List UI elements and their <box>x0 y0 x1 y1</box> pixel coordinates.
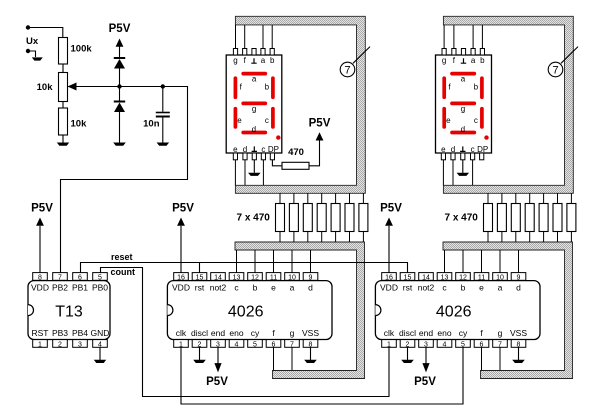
wire: carry U3 cy to U2 clk <box>181 347 463 404</box>
wire: wiper node to T13 PB2 <box>61 87 188 273</box>
wire: reset net T13 PB1 to U2/U3 rst <box>81 263 408 273</box>
svg-text:10n: 10n <box>143 118 160 129</box>
wires: display DIS2 pins e d c to bus <box>443 160 472 186</box>
svg-text:PB0: PB0 <box>92 283 108 293</box>
svg-text:reset: reset <box>111 252 133 262</box>
display DIS1 bottom pins e d com c DP <box>233 153 274 160</box>
svg-text:PB3: PB3 <box>52 328 68 338</box>
microcontroller U1 T13 bottom pin labels <box>32 328 110 338</box>
svg-text:b: b <box>474 82 479 91</box>
wires: display DIS1 segment pins g f a b to bus <box>236 25 273 49</box>
svg-text:cy: cy <box>459 328 468 338</box>
svg-text:10: 10 <box>288 274 296 281</box>
7-segment display DIS2 body <box>436 55 492 153</box>
resistor R23 (470) <box>511 204 520 232</box>
display DIS1 segment a <box>243 72 265 76</box>
svg-text:b: b <box>270 56 275 65</box>
svg-text:7: 7 <box>552 65 558 77</box>
display DIS2 segment f <box>442 78 446 97</box>
microcontroller U1 T13 top pin boxes <box>33 273 108 282</box>
wire: bus to resistor R27 <box>570 193 572 203</box>
svg-text:4: 4 <box>235 341 239 348</box>
resistor R12 (470) <box>289 204 298 232</box>
resistor 470 (DP series) <box>282 162 309 169</box>
wire: bus to resistor R21 <box>487 193 489 203</box>
svg-text:7 x 470: 7 x 470 <box>237 213 271 224</box>
wires: display DIS1 pins e d c to bus <box>235 160 263 186</box>
svg-text:4026: 4026 <box>436 304 472 321</box>
svg-text:RST: RST <box>32 328 49 338</box>
svg-text:14: 14 <box>422 274 430 281</box>
svg-text:T13: T13 <box>55 304 83 321</box>
svg-text:a: a <box>261 56 266 65</box>
svg-text:P5V: P5V <box>309 118 331 130</box>
microcontroller U1 T13 body <box>28 281 110 340</box>
wire: resistor R24 to bus <box>529 232 531 243</box>
svg-text:a: a <box>498 283 503 293</box>
counter U2 4026 top pin boxes <box>174 273 318 282</box>
wire: resistor R26 to bus <box>557 232 559 243</box>
display DIS2 bottom pin labels e d com c DP <box>441 145 488 154</box>
resistor R21 (470) <box>484 204 493 232</box>
wire: resistor R22 to bus <box>501 232 503 243</box>
svg-text:g: g <box>461 104 465 113</box>
wire: P5V to U3 VDD <box>388 226 390 273</box>
ground at 10k <box>57 143 69 146</box>
svg-text:2: 2 <box>58 341 62 348</box>
display DIS1 segment b <box>271 78 275 97</box>
wire: T13 GND to ground <box>99 347 101 360</box>
P5V supply at U2 VDD <box>172 203 194 226</box>
resistor R15 (470) <box>331 204 340 232</box>
display DIS2 top pins g f com a b <box>442 49 485 56</box>
wire: resistor R13 to bus <box>307 232 309 243</box>
display DIS2 segment d <box>452 131 474 135</box>
wire: P5V to U2 VDD <box>180 226 182 273</box>
resistor R13 (470) <box>303 204 312 232</box>
svg-text:VSS: VSS <box>510 328 527 338</box>
counter U3 4026 top pin labels <box>380 283 521 293</box>
wire: DIS1 DP pin to resistor <box>272 160 282 166</box>
wire: D2 to ground <box>119 112 121 143</box>
wire: bus to resistor R14 <box>321 193 323 203</box>
svg-text:VDD: VDD <box>380 283 398 293</box>
svg-text:b: b <box>265 82 270 91</box>
counter U3 4026 top pin boxes <box>382 273 526 282</box>
wire: bus to resistor R16 <box>349 193 351 203</box>
display DIS1 top pin labels g f com a b <box>233 56 275 65</box>
svg-text:VSS: VSS <box>302 328 319 338</box>
svg-text:cy: cy <box>251 328 260 338</box>
display DIS2 segment a <box>452 72 474 76</box>
resistor R17 (470) <box>359 204 368 232</box>
wire: resistor R14 to bus <box>321 232 323 243</box>
wire: bus to resistor R13 <box>307 193 309 203</box>
display DIS1 segment g <box>243 102 265 106</box>
wire: resistor R25 to bus <box>543 232 545 243</box>
svg-text:4026: 4026 <box>228 304 264 321</box>
svg-text:end: end <box>211 328 225 338</box>
svg-text:PB4: PB4 <box>72 328 88 338</box>
wire: bus to resistor R24 <box>529 193 531 203</box>
svg-text:10k: 10k <box>37 82 54 93</box>
wire: resistor R12 to bus <box>293 232 295 243</box>
capacitor 10n <box>156 112 170 118</box>
wire: pot to 10k <box>62 102 64 109</box>
ground at capacitor <box>157 143 170 146</box>
svg-text:1: 1 <box>38 341 42 348</box>
svg-text:a: a <box>252 75 257 84</box>
svg-text:DP: DP <box>268 145 279 154</box>
wire: bus to resistor R11 <box>279 193 281 203</box>
wire: capacitor to ground <box>162 118 164 143</box>
svg-text:e: e <box>233 145 238 154</box>
svg-text:DP: DP <box>477 145 488 154</box>
svg-text:12: 12 <box>459 274 467 281</box>
wires: U3 pins f g to bus <box>482 347 501 370</box>
svg-text:16: 16 <box>385 274 393 281</box>
counter U3 4026 bottom pin boxes <box>382 340 526 349</box>
wire: D1 to wiper node <box>119 69 121 87</box>
bundle marker: 7 conductors, channel 1 <box>340 47 370 77</box>
svg-text:d: d <box>308 283 313 293</box>
display DIS1 decimal point <box>276 135 280 139</box>
display DIS2 decimal point <box>484 135 488 139</box>
resistor R16 (470) <box>345 204 354 232</box>
wire: U3 end to P5V <box>425 347 427 364</box>
svg-text:100k: 100k <box>71 44 93 55</box>
svg-text:P5V: P5V <box>206 376 228 388</box>
svg-text:5: 5 <box>253 341 257 348</box>
counter-side bus channel 1 (7-wire bundle) <box>235 242 365 379</box>
wires: bus to U2 segment pins c b e a d <box>237 250 311 273</box>
resistor R25 (470) <box>539 204 548 232</box>
svg-text:g: g <box>233 56 237 65</box>
svg-text:c: c <box>474 116 478 125</box>
resistor R14 (470) <box>317 204 326 232</box>
resistor R11 (470) <box>276 204 285 232</box>
node wiper junction 1 <box>117 84 121 88</box>
svg-text:not2: not2 <box>210 283 227 293</box>
svg-text:g: g <box>498 328 503 338</box>
svg-text:VDD: VDD <box>31 283 49 293</box>
wires: U2 pins f g to bus <box>274 347 293 370</box>
counter-side bus channel 2 (7-wire bundle) <box>443 242 573 379</box>
display DIS1 top pins g f com a b <box>233 49 274 56</box>
display DIS1 bottom pin labels e d com c DP <box>233 145 279 154</box>
svg-text:a: a <box>290 283 295 293</box>
wire: bus to resistor R15 <box>335 193 337 203</box>
svg-text:7 x 470: 7 x 470 <box>445 213 479 224</box>
node Ux- terminal <box>26 49 30 53</box>
counter U2 4026 bottom pin boxes <box>174 340 318 349</box>
wire: 10k to ground <box>62 135 64 143</box>
resistor 10k <box>59 108 68 135</box>
resistor R24 (470) <box>525 204 534 232</box>
P5V supply at U3 display-enable <box>414 363 436 388</box>
svg-text:8: 8 <box>38 274 42 281</box>
svg-text:e: e <box>271 283 276 293</box>
wire: U2 discl to ground <box>199 347 201 360</box>
wire: resistor R21 to bus <box>487 232 489 243</box>
svg-text:7: 7 <box>58 274 62 281</box>
wire: resistor R16 to bus <box>349 232 351 243</box>
counter U3 4026 bottom pin labels <box>384 328 528 338</box>
svg-text:b: b <box>253 283 258 293</box>
P5V supply at U2 display-enable <box>206 363 228 388</box>
microcontroller U1 T13 bottom pin boxes <box>33 340 108 349</box>
display DIS2 segment b <box>480 78 484 97</box>
wire: bus to resistor R17 <box>362 193 364 203</box>
svg-text:VDD: VDD <box>172 283 190 293</box>
counter U2 4026 body <box>167 281 332 340</box>
display DIS1 segment f <box>234 78 238 97</box>
display DIS1 segment c <box>271 109 275 127</box>
display DIS1 segment e <box>234 109 238 127</box>
svg-text:GND: GND <box>91 328 110 338</box>
wire: node to capacitor <box>162 87 164 112</box>
wire: Ux- to ground <box>28 51 36 57</box>
svg-text:a: a <box>471 56 476 65</box>
svg-text:d: d <box>243 145 247 154</box>
svg-text:12: 12 <box>251 274 259 281</box>
svg-text:c: c <box>261 145 265 154</box>
svg-text:P5V: P5V <box>172 203 194 215</box>
wire: resistor R15 to bus <box>335 232 337 243</box>
wire: bus to resistor R22 <box>501 193 503 203</box>
ground at Ux- <box>32 57 43 60</box>
wires: display DIS2 segment pins g f a b to bus <box>444 25 482 49</box>
svg-text:P5V: P5V <box>31 203 53 215</box>
ground at D2 <box>113 143 126 146</box>
svg-text:rst: rst <box>403 283 413 293</box>
wire: P5V to T13 VDD <box>39 226 41 273</box>
svg-text:a: a <box>461 75 466 84</box>
svg-text:discl: discl <box>399 328 416 338</box>
svg-text:10k: 10k <box>71 119 88 130</box>
svg-text:d: d <box>451 145 455 154</box>
svg-text:13: 13 <box>233 274 241 281</box>
display DIS2 segment c <box>480 109 484 127</box>
svg-text:eno: eno <box>229 328 243 338</box>
wire: U2 end to P5V <box>217 347 219 364</box>
svg-text:P5V: P5V <box>380 203 402 215</box>
svg-text:9: 9 <box>517 274 521 281</box>
svg-text:end: end <box>419 328 433 338</box>
svg-text:P5V: P5V <box>414 376 436 388</box>
counter U2 4026 bottom pin labels <box>176 328 320 338</box>
svg-text:d: d <box>516 283 521 293</box>
display DIS2 top pin labels g f com a b <box>442 56 485 65</box>
node Ux+ terminal <box>26 25 30 29</box>
svg-text:9: 9 <box>309 274 313 281</box>
wire: reset stub to U2 rst <box>199 263 201 273</box>
svg-text:P5V: P5V <box>109 23 131 35</box>
svg-text:g: g <box>290 328 295 338</box>
svg-text:rst: rst <box>195 283 205 293</box>
display DIS2 segment g <box>452 102 474 106</box>
wire: P5V to diode D1 <box>119 47 121 58</box>
svg-text:10: 10 <box>496 274 504 281</box>
wire: U3 VSS to ground <box>518 347 520 360</box>
resistor R27 (470) <box>567 204 576 232</box>
svg-text:15: 15 <box>196 274 204 281</box>
diode D2 (clamp to ground) <box>114 101 125 113</box>
svg-text:14: 14 <box>214 274 222 281</box>
svg-text:4: 4 <box>443 341 447 348</box>
svg-text:b: b <box>480 56 485 65</box>
wire: bus to resistor R26 <box>557 193 559 203</box>
svg-text:eno: eno <box>437 328 451 338</box>
ground at U3 discl <box>401 360 414 363</box>
P5V supply at U3 VDD <box>380 203 402 226</box>
wire: resistor R27 to bus <box>570 232 572 243</box>
wire: Ux to R100k <box>28 28 63 38</box>
svg-text:c: c <box>471 145 475 154</box>
svg-text:e: e <box>237 116 242 125</box>
display module bus frame channel 1 (7-wire bundle) <box>235 16 365 193</box>
7-segment display DIS1 body <box>226 55 282 153</box>
wire: resistor R17 to bus <box>362 232 364 243</box>
wire: bus to resistor R23 <box>515 193 517 203</box>
wire: U3 discl to ground <box>407 347 409 360</box>
bundle marker: 7 conductors, channel 2 <box>548 47 578 77</box>
svg-text:13: 13 <box>441 274 449 281</box>
svg-text:e: e <box>441 145 446 154</box>
ground at display DIS1 common <box>248 173 261 176</box>
svg-text:PB2: PB2 <box>52 283 68 293</box>
svg-text:clk: clk <box>176 328 187 338</box>
wire: resistor R11 to bus <box>279 232 281 243</box>
svg-text:clk: clk <box>384 328 395 338</box>
wire: bus to resistor R25 <box>543 193 545 203</box>
display DIS1 segment d <box>243 131 265 135</box>
wire: count net T13 PB0 to U3 clk <box>101 268 390 397</box>
wire: bus to resistor R12 <box>293 193 295 203</box>
P5V supply at clamp diodes <box>109 23 131 47</box>
potentiometer 10k <box>59 73 77 102</box>
P5V supply at T13 VDD <box>31 203 53 226</box>
display DIS2 segment letters <box>446 75 479 134</box>
svg-text:e: e <box>479 283 484 293</box>
ground at U3 VSS <box>512 360 525 363</box>
svg-text:5: 5 <box>98 274 102 281</box>
svg-text:count: count <box>111 267 136 277</box>
svg-text:not2: not2 <box>418 283 435 293</box>
resistor 100k <box>59 38 68 65</box>
P5V supply at DP resistor <box>309 118 331 141</box>
svg-text:6: 6 <box>78 274 82 281</box>
wires: bus to U3 segment pins c b e a d <box>445 250 519 273</box>
svg-text:15: 15 <box>404 274 412 281</box>
wire: resistor to P5V <box>309 141 320 166</box>
svg-text:e: e <box>446 116 451 125</box>
diode D1 (clamp to P5V) <box>114 57 125 69</box>
ground at display DIS2 common <box>457 173 470 176</box>
display DIS1 segment letters <box>237 75 269 134</box>
ground at U2 VSS <box>304 360 317 363</box>
wire: resistor R23 to bus <box>515 232 517 243</box>
svg-text:7: 7 <box>344 65 350 77</box>
wire: display DIS2 common pin to ground <box>462 160 464 173</box>
svg-text:g: g <box>252 104 256 113</box>
ground at T13 GND <box>94 360 106 363</box>
counter U2 4026 top pin labels <box>172 283 313 293</box>
svg-text:g: g <box>442 56 446 65</box>
svg-text:470: 470 <box>288 147 304 158</box>
display DIS2 segment e <box>442 109 446 127</box>
svg-text:11: 11 <box>478 274 485 281</box>
wire: 100k to potentiometer <box>62 64 64 73</box>
wire: U2 VSS to ground <box>310 347 312 360</box>
svg-text:c: c <box>265 116 269 125</box>
ground at U2 discl <box>193 360 206 363</box>
node wiper junction 2 <box>161 84 165 88</box>
wire: node to diode D2 <box>119 87 121 101</box>
resistor R22 (470) <box>497 204 506 232</box>
counter U3 4026 body <box>375 281 540 340</box>
svg-text:PB1: PB1 <box>72 283 88 293</box>
display module bus frame channel 2 (7-wire bundle) <box>443 16 573 193</box>
microcontroller U1 T13 top pin labels <box>31 283 108 293</box>
svg-text:Ux: Ux <box>26 36 39 47</box>
wire: display DIS1 common pin to ground <box>253 160 255 173</box>
resistor R26 (470) <box>553 204 562 232</box>
svg-text:b: b <box>461 283 466 293</box>
svg-text:16: 16 <box>177 274 185 281</box>
svg-text:discl: discl <box>191 328 208 338</box>
svg-text:d: d <box>461 125 465 134</box>
display DIS2 bottom pins e d com c DP <box>441 153 484 160</box>
svg-text:3: 3 <box>78 341 82 348</box>
svg-text:d: d <box>252 125 256 134</box>
svg-text:11: 11 <box>270 274 277 281</box>
